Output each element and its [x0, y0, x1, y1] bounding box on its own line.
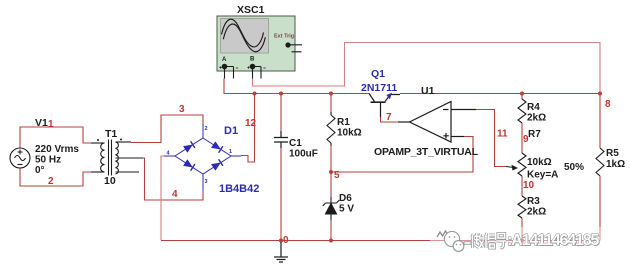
svg-text:Key=A: Key=A: [527, 170, 558, 181]
junction node dot (331,172): [329, 170, 333, 174]
svg-text::A1411464185: :A1411464185: [507, 232, 599, 249]
svg-text:2kΩ: 2kΩ: [527, 113, 546, 124]
wire scope B to output rail (light): [253, 43, 601, 94]
resistor R3: [518, 196, 526, 218]
svg-text:U1: U1: [421, 85, 435, 97]
wire node 4 : T1 secondary center tap to bridge bottom: [143, 158, 203, 200]
junction node dot (522,93.5): [520, 92, 524, 96]
wire R1 top lead from rail: [330, 94, 332, 113]
junction node dot (281,240.5): [279, 239, 283, 243]
scope waveform B: [223, 24, 265, 52]
resistor R4: [518, 99, 526, 123]
op-amp U1: [398, 102, 476, 143]
svg-text:R7: R7: [528, 129, 541, 140]
wire node 5 to op-amp + input: [331, 137, 473, 173]
svg-text:Ext Trig: Ext Trig: [274, 34, 294, 40]
wire C1 branch top: [280, 94, 282, 132]
svg-text:B: B: [250, 57, 255, 63]
bridge rectifier D1 outline: [164, 124, 241, 191]
Q1 emitter arrow: [386, 93, 392, 100]
svg-text:1: 1: [48, 119, 54, 130]
svg-text:0°: 0°: [35, 165, 45, 176]
junction node dot (331,93.5): [329, 92, 333, 96]
bridge diode element: [183, 145, 193, 153]
potentiometer R7: [518, 153, 526, 176]
watermark dash: [464, 242, 471, 245]
svg-text:4: 4: [172, 189, 178, 200]
bridge diode element: [211, 163, 221, 171]
junction node dot (600,93.5): [598, 92, 602, 96]
bridge diode element: [183, 159, 193, 167]
Ext Trig terminal: [285, 42, 290, 47]
resistor R1: [327, 112, 335, 146]
bridge diode element: [211, 141, 221, 149]
svg-text:10kΩ: 10kΩ: [337, 128, 362, 139]
wire V1 top to T1 primary top: [20, 127, 91, 148]
svg-text:50%: 50%: [564, 162, 584, 173]
oscilloscope XSC1 body: [217, 16, 295, 71]
wire R3 bottom to ground rail: [521, 218, 523, 241]
wire V1 bottom to T1 primary bottom: [20, 168, 91, 186]
wire node 12 : bridge right vertex up to DC rail: [241, 93, 255, 162]
watermark hanzi stroke: [472, 233, 484, 248]
svg-text:10: 10: [104, 175, 116, 187]
wire node 8 vertical to R5 top: [599, 93, 601, 148]
junction node dot (281,93.5): [279, 92, 283, 96]
svg-text:0: 0: [283, 235, 289, 246]
watermark hanzi stroke: [496, 234, 506, 248]
svg-text:V1: V1: [35, 117, 48, 129]
svg-text:5: 5: [334, 170, 340, 181]
zener diode D6: [323, 197, 340, 220]
svg-text:1kΩ: 1kΩ: [606, 159, 625, 170]
R7 wiper arrow: [506, 167, 514, 168]
resistor R5: [596, 148, 604, 176]
wire node 5 : R1 bottom junction: [330, 146, 332, 172]
svg-text:1B4B42: 1B4B42: [219, 183, 259, 195]
svg-text:R1: R1: [337, 117, 350, 128]
svg-text:100uF: 100uF: [289, 149, 318, 160]
svg-text:Q1: Q1: [371, 68, 385, 80]
AC source V1: [10, 148, 30, 168]
svg-text:2N1711: 2N1711: [361, 82, 397, 94]
junction node dot (522,240.5): [520, 239, 524, 243]
wire node 10 : R7 bottom to R3 top: [521, 176, 523, 196]
svg-text:C1: C1: [289, 138, 302, 149]
svg-text:50 Hz: 50 Hz: [35, 155, 61, 166]
junction node dot (254.5,93.5): [253, 92, 257, 96]
svg-text:OPAMP_3T_VIRTUAL: OPAMP_3T_VIRTUAL: [374, 146, 479, 158]
svg-text:10: 10: [523, 180, 535, 191]
T1 phase dots: [97, 139, 99, 141]
svg-text:R3: R3: [527, 196, 540, 207]
wire node 0 : bridge left vertex down to ground rail: [161, 156, 164, 240]
svg-text:3: 3: [205, 179, 208, 185]
svg-text:2: 2: [48, 176, 54, 187]
svg-text:R4: R4: [527, 102, 540, 113]
oscilloscope screen: [221, 19, 269, 54]
transformer T1: [91, 140, 143, 176]
wire node 7 : op-amp output to Q1 base: [381, 117, 399, 122]
wire node 3 : T1 secondary top to bridge top: [131, 115, 203, 143]
svg-text:2: 2: [205, 126, 208, 132]
svg-text:D6: D6: [339, 193, 352, 204]
svg-text:1: 1: [229, 149, 232, 155]
svg-text:3: 3: [179, 104, 185, 115]
svg-text:D1: D1: [224, 125, 238, 137]
ground: [274, 242, 288, 262]
svg-text:T1: T1: [105, 128, 117, 140]
svg-text:5 V: 5 V: [339, 204, 354, 215]
wire node 9 : R4 bottom to R7 top: [521, 94, 523, 100]
scope waveform A: [222, 19, 264, 47]
watermark hanzi stroke: [485, 233, 495, 248]
wire R5 bottom to ground rail: [599, 176, 601, 241]
svg-text:8: 8: [605, 99, 611, 110]
wire node 8 : Q1 emitter to R4/R5 column: [400, 93, 600, 95]
svg-text:XSC1: XSC1: [237, 4, 265, 16]
wire D6 top / bottom: [330, 172, 332, 197]
svg-text:220 Vrms: 220 Vrms: [35, 144, 79, 155]
svg-text:A: A: [222, 57, 227, 63]
svg-text:12: 12: [245, 118, 257, 129]
svg-text:2kΩ: 2kΩ: [527, 207, 546, 218]
bridge pin numbers: [167, 126, 233, 185]
wire node 12 DC rail (scope A to Q1 collector): [224, 79, 369, 94]
wire node 11 : op-amp - input to R7 wiper: [476, 110, 506, 167]
svg-text:11: 11: [497, 129, 508, 140]
capacitor C1: [274, 131, 288, 148]
svg-text:R5: R5: [606, 148, 619, 159]
junction node dot (331,240.5): [329, 239, 333, 243]
svg-text:7: 7: [386, 112, 392, 123]
watermark softening backdrop: [430, 227, 615, 252]
watermark wechat icon: [437, 231, 448, 237]
wire ground rail (net 0): [161, 240, 600, 242]
transistor Q1: [369, 94, 400, 118]
wire C1 branch bottom: [280, 148, 282, 241]
svg-text:10kΩ: 10kΩ: [527, 157, 552, 168]
